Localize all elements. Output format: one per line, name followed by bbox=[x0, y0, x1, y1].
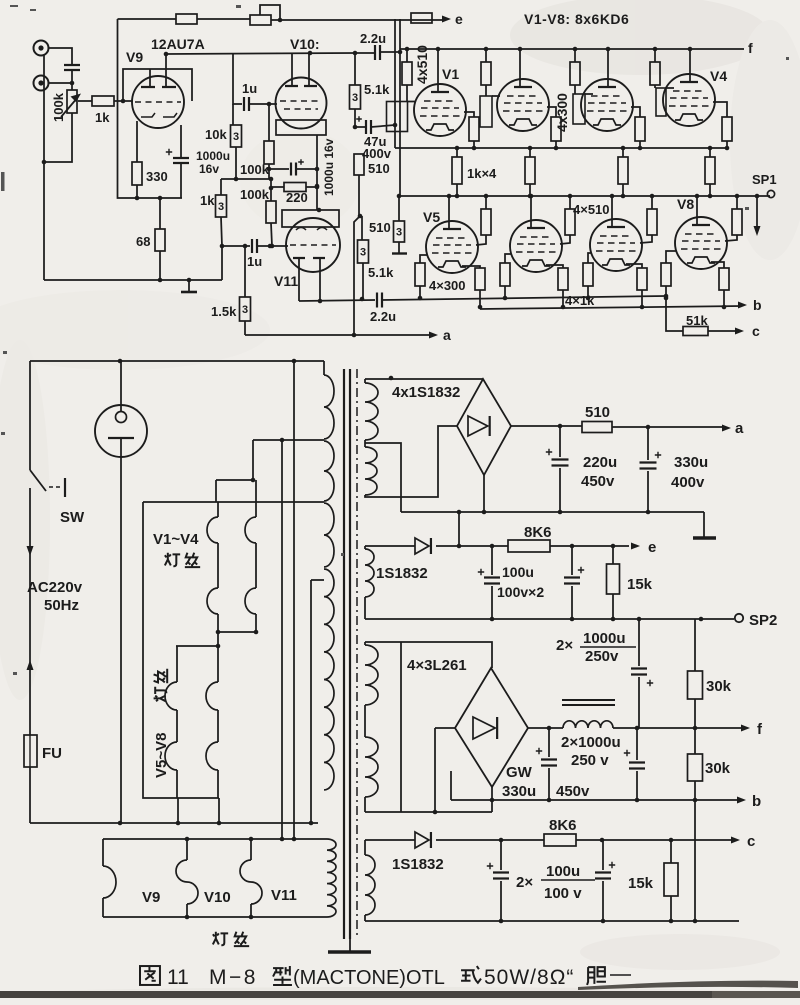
svg-text:4x510: 4x510 bbox=[414, 45, 430, 84]
V6 plate pin bbox=[530, 196, 532, 228]
arrow to e bbox=[442, 16, 451, 23]
V4 plate pin bbox=[689, 49, 691, 82]
svg-text:330u: 330u bbox=[502, 783, 536, 800]
transformer primary winding bbox=[323, 361, 325, 375]
heater winding bottoms bbox=[218, 631, 256, 633]
wires to AC bus bbox=[178, 798, 219, 823]
V3 plate pin bbox=[607, 49, 609, 87]
triode V9 12AU7A bbox=[132, 76, 184, 128]
3L261 winding 2 bbox=[365, 737, 378, 797]
c secondary winding bbox=[364, 840, 366, 855]
svg-text:a: a bbox=[735, 420, 744, 437]
svg-text:4×3L261: 4×3L261 bbox=[407, 657, 467, 674]
svg-text:3: 3 bbox=[352, 92, 358, 104]
transformer core bbox=[343, 369, 345, 939]
svg-text:M−8: M−8 bbox=[209, 966, 258, 989]
output tube V2 bbox=[497, 79, 549, 131]
V5 cathode resistor bbox=[462, 266, 480, 268]
svg-text:4×510: 4×510 bbox=[573, 202, 610, 217]
V2 grid resistor from bus bbox=[485, 49, 487, 62]
svg-text:50Hz: 50Hz bbox=[44, 597, 79, 614]
svg-text:400v: 400v bbox=[362, 146, 392, 161]
resistor 8K6 (c) bbox=[544, 834, 576, 846]
bridge1 output bbox=[511, 425, 582, 427]
svg-text:V10: V10 bbox=[204, 889, 231, 906]
resistor 5.1k w3 (second) bbox=[361, 216, 363, 240]
vertical tap wires bbox=[281, 440, 283, 839]
svg-text:b: b bbox=[752, 793, 761, 810]
capacitor 330u 400v bbox=[647, 427, 649, 512]
svg-text:15k: 15k bbox=[628, 875, 654, 892]
V2 plate pin bbox=[519, 49, 521, 87]
HV top wire to bridge bbox=[365, 378, 483, 380]
left feedback rail bbox=[118, 19, 183, 198]
resistor 220 bbox=[270, 179, 272, 201]
vertical to c-section common bbox=[694, 800, 696, 921]
svg-text:30k: 30k bbox=[705, 760, 731, 777]
SP2 line bbox=[365, 618, 734, 620]
svg-text:5.1k: 5.1k bbox=[364, 82, 390, 97]
svg-text:b: b bbox=[753, 297, 762, 313]
svg-text:V9: V9 bbox=[126, 49, 143, 65]
svg-text:V5~V8: V5~V8 bbox=[153, 733, 170, 778]
svg-text:100k: 100k bbox=[240, 187, 270, 202]
V6 grid resistor bbox=[505, 254, 511, 263]
scan specks bbox=[1, 5, 789, 675]
resistor 1k (input) bbox=[92, 96, 114, 106]
capacitor 2.2u (V10 out) bbox=[355, 52, 374, 54]
V2 grid box bbox=[485, 85, 487, 96]
svg-text:450v: 450v bbox=[556, 783, 590, 800]
V7 grid resistor bbox=[588, 253, 591, 263]
HV center tap bbox=[365, 443, 401, 512]
output tube V5 bbox=[426, 221, 478, 273]
svg-text:V9: V9 bbox=[142, 889, 160, 906]
fuse FU bbox=[24, 735, 37, 767]
svg-text:1.5k: 1.5k bbox=[211, 304, 237, 319]
V11 cathode box bbox=[282, 210, 339, 227]
svg-text:SP1: SP1 bbox=[752, 172, 777, 187]
wire cap to jack2 node bbox=[49, 70, 73, 83]
e secondary winding bbox=[365, 549, 374, 597]
V3 grid box bbox=[574, 85, 576, 94]
svg-text:1u: 1u bbox=[247, 254, 262, 269]
c common line bbox=[365, 920, 739, 922]
resistor 510 bbox=[582, 422, 612, 433]
capacitor 1u (to V11 grid) bbox=[222, 245, 250, 247]
svg-text:SP2: SP2 bbox=[749, 612, 777, 629]
bias rail bbox=[221, 178, 269, 180]
3L261 winding 1 bbox=[364, 642, 366, 645]
wire V9 plate line to V10 bbox=[166, 53, 355, 54]
heater box right winding bbox=[327, 839, 336, 917]
svg-text:8K6: 8K6 bbox=[524, 524, 552, 541]
svg-text:10k: 10k bbox=[205, 127, 227, 142]
svg-text:15k: 15k bbox=[627, 576, 653, 593]
resistor 510 w3 (grid stopper) bbox=[398, 196, 400, 221]
V9 cathode pins bbox=[137, 121, 181, 162]
diode 1S1832 (c) bbox=[365, 839, 415, 841]
wire down to 1u cap bbox=[233, 54, 242, 104]
V11 plate line bbox=[299, 300, 375, 301]
HV secondary winding bbox=[364, 379, 366, 383]
V7 plate pin bbox=[611, 196, 613, 227]
bridge2 box wires bbox=[365, 642, 492, 668]
V4 cathode resistor bbox=[713, 102, 727, 117]
V9-V11 heater box bbox=[103, 839, 327, 917]
svg-text:e: e bbox=[455, 11, 463, 27]
svg-text:12AU7A: 12AU7A bbox=[151, 36, 205, 52]
svg-text:3: 3 bbox=[396, 227, 402, 239]
wire jack1 to coupling cap bbox=[49, 48, 73, 64]
resistor 5.1k w3 bbox=[354, 53, 356, 85]
svg-text:330u: 330u bbox=[674, 454, 708, 471]
wire 1k to V9 grid bbox=[114, 100, 133, 102]
svg-text:100u: 100u bbox=[502, 564, 534, 580]
V5 screen resistor bbox=[485, 196, 487, 209]
svg-text:100 v: 100 v bbox=[544, 885, 582, 902]
svg-text:1S1832: 1S1832 bbox=[392, 856, 444, 873]
HV bottom wire bbox=[365, 426, 457, 497]
neon lamp bbox=[95, 405, 147, 457]
output tube V1 bbox=[414, 84, 466, 136]
V5-V8 heater winding 1 bbox=[176, 646, 178, 682]
capacitor 220u 450v bbox=[559, 426, 561, 512]
ground symbol bbox=[188, 280, 190, 291]
resistor (feedback) R_A bbox=[176, 14, 197, 24]
V5-V8 heater winding 2 bbox=[217, 646, 219, 682]
capacitor 1000u 16v (V9 cathode) bbox=[166, 149, 172, 155]
svg-text:(MACTONE)OTL: (MACTONE)OTL bbox=[293, 967, 445, 989]
V8 cathode resistor bbox=[711, 262, 724, 268]
capacitor 100u/100v 2 bbox=[602, 840, 604, 921]
input jack J2 bbox=[34, 76, 49, 91]
V9 grid/plate strap box bbox=[123, 69, 192, 101]
V4 grid box bbox=[654, 85, 656, 88]
SP1 bus bbox=[398, 195, 770, 197]
svg-text:16v: 16v bbox=[199, 162, 219, 176]
top feedback line bbox=[118, 18, 177, 20]
capacitor 2.2u (driver out) bbox=[377, 293, 382, 308]
caption bbox=[140, 966, 160, 985]
labels dengsi rotated V5-V8 bbox=[154, 669, 168, 701]
svg-text:FU: FU bbox=[42, 745, 62, 762]
output tube V8 bbox=[675, 217, 727, 269]
svg-text:V10:: V10: bbox=[290, 36, 320, 52]
svg-text:1000u: 1000u bbox=[583, 630, 626, 647]
svg-text:400v: 400v bbox=[671, 474, 705, 491]
svg-text:250 v: 250 v bbox=[571, 752, 609, 769]
svg-text:V11: V11 bbox=[271, 887, 297, 904]
svg-text:V11: V11 bbox=[274, 273, 298, 289]
svg-text:4×300: 4×300 bbox=[429, 278, 466, 293]
capacitor 2x1000u lower bbox=[636, 728, 638, 800]
svg-text:V1~V4: V1~V4 bbox=[153, 531, 199, 548]
page edge artifacts bbox=[0, 991, 800, 998]
svg-text:1k: 1k bbox=[200, 193, 215, 208]
svg-text:V4: V4 bbox=[710, 68, 727, 84]
top bus f bbox=[400, 48, 744, 50]
ground line bbox=[44, 279, 222, 281]
svg-text:1k: 1k bbox=[95, 110, 110, 125]
svg-text:3: 3 bbox=[218, 201, 224, 213]
input coupling capacitor bbox=[64, 65, 80, 70]
svg-text:V8: V8 bbox=[677, 196, 694, 212]
long vertical from AC to heater box bbox=[293, 361, 295, 839]
svg-text:V5: V5 bbox=[423, 209, 440, 225]
V5 grid resistor bbox=[420, 255, 427, 263]
feed from bridge1 common bbox=[458, 512, 460, 546]
V1 cathode resistor bbox=[464, 112, 474, 117]
svg-text:2.2u: 2.2u bbox=[360, 31, 386, 46]
svg-text:2.2u: 2.2u bbox=[370, 309, 396, 324]
primary taps bbox=[253, 439, 324, 441]
V3 grid resistor from bus bbox=[574, 49, 576, 62]
switch SW bbox=[29, 361, 31, 470]
svg-text:c: c bbox=[752, 323, 760, 339]
mid bus bbox=[395, 147, 727, 149]
AC top rail bbox=[30, 360, 324, 362]
ground (HV) bbox=[703, 512, 705, 537]
svg-text:AC220v: AC220v bbox=[27, 579, 83, 596]
output tube V6 bbox=[510, 220, 562, 272]
V1-V4 heater winding 1 bbox=[217, 502, 219, 517]
resistor 510 bbox=[354, 154, 364, 175]
grid drive line bbox=[382, 296, 666, 300]
V8 grid resistor bbox=[666, 251, 676, 263]
V11 plate pins bbox=[299, 258, 320, 301]
resistor 15k bbox=[612, 546, 614, 564]
filter choke bbox=[528, 727, 563, 729]
potentiometer 100k bbox=[67, 90, 77, 113]
capacitor 1u (V9-V10 coupling) bbox=[244, 97, 249, 111]
capacitor (cathode) bbox=[291, 163, 296, 176]
svg-text:3: 3 bbox=[233, 131, 239, 143]
resistor 8K6 bbox=[508, 540, 550, 552]
bridge2 bottom to b rail bbox=[491, 787, 493, 812]
svg-text:4×1k: 4×1k bbox=[565, 293, 595, 308]
51k to c bbox=[666, 296, 683, 331]
svg-text:a: a bbox=[443, 327, 451, 343]
heater box dividers bbox=[186, 839, 188, 860]
V9 plate pins bbox=[149, 69, 151, 87]
a-line bbox=[245, 334, 430, 336]
capacitor 100u b bbox=[571, 546, 573, 619]
svg-text:11: 11 bbox=[167, 966, 189, 989]
labels dengsi (heater) V1-V4 bbox=[165, 553, 180, 567]
V8 screen resistor bbox=[736, 196, 738, 209]
svg-text:2×1000u: 2×1000u bbox=[561, 734, 621, 751]
svg-text:V1-V8: 8x6KD6: V1-V8: 8x6KD6 bbox=[524, 11, 629, 27]
svg-text:250v: 250v bbox=[585, 648, 619, 665]
svg-text:8K6: 8K6 bbox=[549, 817, 577, 834]
V1 grid resistor from bus bbox=[406, 49, 408, 62]
svg-text:3: 3 bbox=[360, 247, 366, 259]
b rail bbox=[451, 799, 738, 801]
bridge rectifier 1 bbox=[457, 379, 511, 475]
svg-text:V1: V1 bbox=[442, 66, 459, 82]
V6 screen resistor bbox=[569, 196, 571, 209]
svg-text:1000u 16v: 1000u 16v bbox=[322, 138, 336, 196]
bottom AC bus bbox=[30, 822, 318, 824]
V7 cathode resistor bbox=[626, 264, 642, 268]
V4 grid resistor from bus bbox=[654, 49, 656, 62]
svg-text:510: 510 bbox=[369, 220, 391, 235]
V10 plate pins bbox=[292, 53, 309, 86]
cathode network wire bbox=[269, 168, 289, 170]
resistor on e feed bbox=[411, 13, 432, 23]
svg-text:1S1832: 1S1832 bbox=[376, 565, 428, 582]
svg-text:SW: SW bbox=[60, 509, 85, 526]
resistor 330 bbox=[132, 162, 142, 185]
V5-V8 heater box bbox=[176, 645, 218, 647]
shield rail bbox=[43, 55, 45, 280]
svg-text:f: f bbox=[748, 40, 753, 56]
triode V11 (inverted) bbox=[286, 218, 340, 272]
svg-text:510: 510 bbox=[368, 161, 390, 176]
V1 plate pin bbox=[437, 49, 439, 92]
V1-V4 heater winding 2 bbox=[216, 479, 253, 481]
svg-text:510: 510 bbox=[585, 404, 610, 421]
svg-text:100k: 100k bbox=[240, 162, 270, 177]
V7 screen resistor bbox=[651, 196, 653, 209]
svg-text:2×: 2× bbox=[516, 874, 533, 891]
V1 grid box bbox=[406, 85, 408, 102]
svg-text:c: c bbox=[747, 833, 755, 850]
V5 plate pin bbox=[448, 196, 450, 229]
svg-text:e: e bbox=[648, 539, 656, 556]
label dengsi bottom bbox=[213, 932, 228, 946]
svg-text:5.1k: 5.1k bbox=[368, 265, 394, 280]
V10 cathode pin down bbox=[316, 135, 318, 210]
svg-text:1k×4: 1k×4 bbox=[467, 166, 497, 181]
wiper wire to 1k bbox=[78, 100, 92, 102]
svg-text:100u: 100u bbox=[546, 863, 580, 880]
svg-text:50W/8Ω“: 50W/8Ω“ bbox=[484, 966, 574, 989]
resistor R_B with jumper loop bbox=[250, 15, 271, 25]
svg-text:1000u: 1000u bbox=[196, 149, 230, 163]
svg-text:100k: 100k bbox=[51, 92, 66, 122]
V10 cathode box bbox=[276, 120, 326, 135]
branch to a-line bbox=[354, 216, 360, 335]
svg-text:30k: 30k bbox=[706, 678, 732, 695]
cathode line to b bbox=[480, 306, 742, 309]
svg-text:100v×2: 100v×2 bbox=[497, 584, 544, 600]
bridge1 common line bbox=[401, 511, 704, 513]
capacitor 2x1000u upper bbox=[638, 619, 640, 728]
V2 cathode resistor bbox=[547, 107, 556, 117]
resistor 68 bbox=[159, 198, 161, 229]
speaker arrow down bbox=[756, 196, 758, 227]
resistor 100k (V10 grid) bbox=[268, 104, 270, 141]
V6 cathode resistor bbox=[546, 265, 563, 268]
V8 plate pin bbox=[696, 196, 698, 225]
output tube V7 bbox=[590, 219, 642, 271]
output tube V3 bbox=[581, 79, 633, 131]
capacitor 47u 400v bbox=[356, 116, 362, 122]
svg-text:330: 330 bbox=[146, 169, 168, 184]
diode 1S1832 bbox=[365, 545, 415, 547]
resistor 15k (c) bbox=[670, 840, 672, 863]
resistor 30k upper bbox=[694, 619, 696, 671]
output tube V4 bbox=[663, 74, 715, 126]
V1 grid feed dot bbox=[393, 123, 398, 128]
svg-text:220u: 220u bbox=[583, 454, 617, 471]
V3 cathode resistor bbox=[631, 107, 640, 117]
bridge rectifier 2 (GW) bbox=[455, 668, 528, 787]
input jack J1 bbox=[34, 41, 49, 56]
triode V10 bbox=[276, 78, 327, 129]
svg-text:4x300: 4x300 bbox=[554, 93, 570, 132]
svg-text:4x1S1832: 4x1S1832 bbox=[392, 384, 460, 401]
svg-text:GW: GW bbox=[506, 764, 533, 781]
core ground bbox=[349, 939, 351, 951]
wire pot bottom to shield rail bbox=[44, 113, 72, 162]
resistor 30k lower bbox=[694, 728, 696, 754]
svg-text:3: 3 bbox=[242, 304, 248, 316]
capacitor 100u/100v 1 bbox=[500, 840, 502, 921]
svg-text:68: 68 bbox=[136, 234, 150, 249]
B+ verticals bbox=[394, 19, 396, 148]
svg-text:1u: 1u bbox=[242, 81, 257, 96]
svg-text:450v: 450v bbox=[581, 473, 615, 490]
capacitor 100u a bbox=[491, 546, 493, 619]
capacitor 450v (GW) bbox=[548, 728, 550, 800]
svg-text:2×: 2× bbox=[556, 637, 573, 654]
svg-text:220: 220 bbox=[286, 190, 308, 205]
